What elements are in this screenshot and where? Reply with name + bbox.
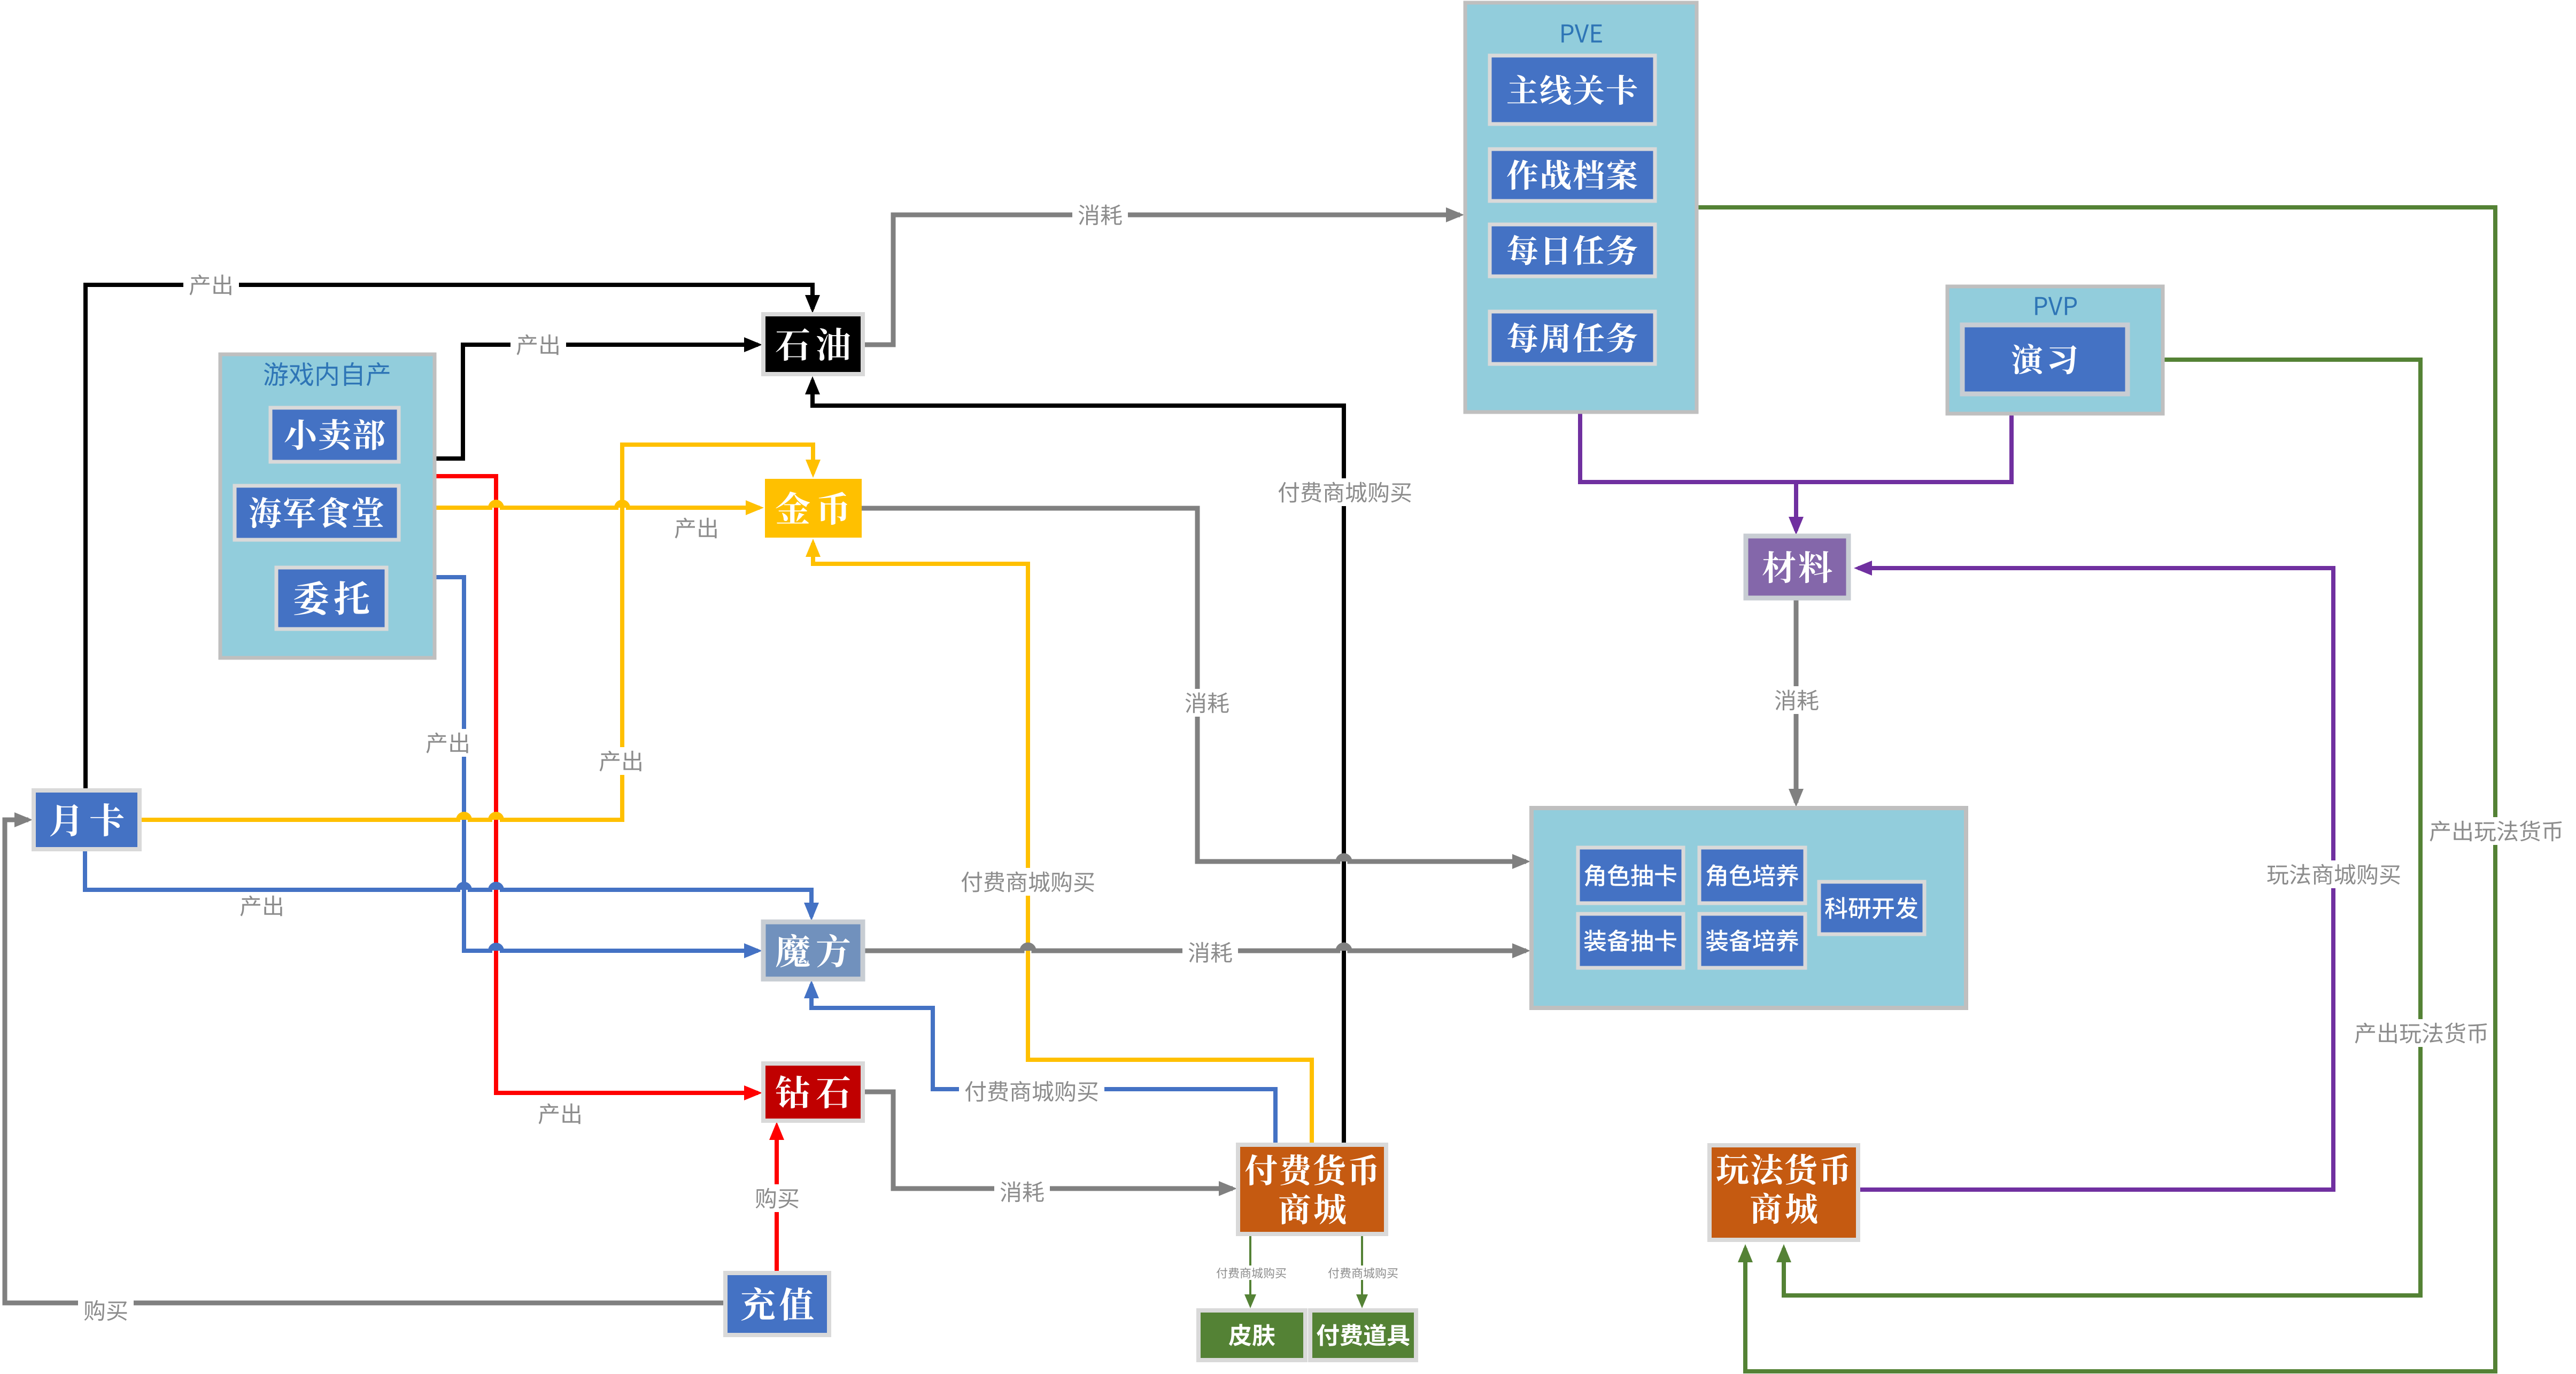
box: 每周任务 (1490, 312, 1655, 364)
text: 每日任务 (1507, 235, 1637, 265)
text: 月卡 (50, 803, 124, 836)
text: 充值 (741, 1287, 814, 1321)
text: 演习 (2012, 344, 2076, 374)
box: 金币 (765, 479, 862, 538)
text: 每周任务 (1507, 322, 1637, 353)
box: 作战档案 (1490, 149, 1655, 201)
wire: 月卡→石油 产出 (black) (86, 285, 820, 802)
title: PVP (2035, 297, 2077, 315)
label: 产出 (委托→魔方) (420, 729, 476, 757)
label: 付费商城购买 (→金币) (955, 868, 1101, 896)
text: 角色培养 (1706, 864, 1798, 887)
text: 材料 (1762, 551, 1832, 583)
label: 产出 (小卖部→石油) (510, 331, 566, 359)
wire: 石油→PVE 消耗 (gray) (863, 207, 1464, 345)
label: 购买 (充值→月卡) (78, 1297, 134, 1324)
text: 主线关卡 (1507, 75, 1637, 105)
wire: PVP演习→材料 (purple) (1796, 414, 2012, 482)
label: 消耗 (魔方→消耗区) (1182, 938, 1238, 966)
box: 皮肤 (1198, 1310, 1305, 1360)
wire: 充值→月卡 购买 (gray) (5, 812, 725, 1303)
container: 游戏内自产 (220, 354, 435, 658)
label: 购买 (充值→钻石) (749, 1184, 805, 1212)
box: 科研开发 (1819, 882, 1924, 934)
label: 产出玩法货币 (PVE→) (2424, 817, 2569, 845)
box: 角色抽卡 (1578, 848, 1683, 903)
wire: 玩法货币商城→材料 玩法商城购买 (purple) (1854, 561, 2333, 1190)
label: 产出玩法货币 (演习→) (2351, 1019, 2492, 1047)
label: 付费商城购买 (→魔方) (959, 1077, 1104, 1105)
label: 产出 (海军食堂→金币) (675, 518, 717, 539)
wire: 海军食堂→金币 产出 (yellow) (435, 500, 764, 515)
label: 玩法商城购买 (→材料) (2261, 860, 2407, 888)
wire: 付费货币商城→魔方 付费商城购买 (blue) (804, 980, 1275, 1145)
title: 游戏内自产 (264, 362, 390, 386)
label: 消耗 (金币→消耗区) (1179, 689, 1235, 717)
text: 皮肤 (1229, 1324, 1275, 1346)
container: PVE (1465, 3, 1697, 412)
text: 海军食堂 (250, 497, 384, 528)
text: 小卖部 (285, 419, 385, 450)
label: 产出 (月卡→金币) (593, 747, 649, 775)
wire: 委托→魔方 产出 (blue) (435, 577, 762, 958)
text: 科研开发 (1825, 897, 1918, 919)
text: 角色抽卡 (1584, 864, 1676, 886)
box: 付费道具 (1310, 1310, 1416, 1360)
text: 装备抽卡 (1584, 929, 1676, 951)
wire: 付费货币商城→石油 付费商城购买 (black) (805, 376, 1344, 1145)
wire: PVE→玩法货币商城 产出玩法货币 (green) (1697, 207, 2495, 1371)
text: 作战档案 (1507, 159, 1637, 190)
wire: 月卡→金币 产出 (yellow) (140, 445, 821, 820)
text: 玩法货币商城 line2 (1751, 1193, 1817, 1224)
label: 付费商城购买 (→付费道具) (1325, 1266, 1401, 1280)
text: 付费货币商城 line2 (1279, 1193, 1345, 1225)
box: 委托 (276, 568, 386, 629)
text: 委托 (294, 581, 369, 615)
wire: 演习→玩法货币商城 产出玩法货币 (green) (1776, 360, 2420, 1295)
box: 主线关卡 (1490, 56, 1655, 124)
container: 消耗区(抽卡培养) (1531, 808, 1966, 1008)
box: 演习 (1962, 325, 2128, 394)
label: 付费商城购买 (→石油) (1272, 478, 1418, 506)
label: 产出 (海军食堂→钻石) (539, 1104, 581, 1124)
wire: 付费货币商城→付费道具 付费商城购买 (green thin) (1356, 1234, 1368, 1308)
wire: 金币→消耗区 消耗 (gray) (862, 508, 1530, 869)
box: 海军食堂 (235, 486, 399, 540)
text: 玩法货币商城 line1 (1716, 1154, 1848, 1185)
label: 消耗 (钻石→付费货币商城) (994, 1178, 1050, 1206)
label: 消耗 (石油→PVE) (1072, 201, 1128, 229)
label: 产出 (月卡→石油) (183, 271, 239, 299)
wire: 海军食堂→钻石 产出 (red) (435, 476, 762, 1100)
box: 每日任务 (1490, 224, 1655, 276)
wire: 付费货币商城→金币 付费商城购买 (yellow) (806, 539, 1312, 1145)
box: 小卖部 (270, 408, 399, 462)
wire: PVE→材料 (purple) (1580, 412, 1804, 535)
box: 魔方 (763, 922, 863, 979)
box: 装备抽卡 (1578, 914, 1683, 968)
text: 钻石 (776, 1075, 850, 1108)
text: 装备培养 (1706, 929, 1798, 952)
text: 魔方 (776, 934, 850, 967)
text: 付费货币商城 line1 (1246, 1154, 1377, 1186)
box: 付费货币商城 (1238, 1145, 1386, 1234)
text: 石油 (776, 328, 850, 361)
wire: 材料→消耗区 消耗 (gray) (1789, 598, 1804, 807)
label: 产出 (月卡→魔方) (241, 896, 282, 917)
text: 金币 (776, 492, 847, 525)
wire: 小卖部→石油 产出 (black) (435, 337, 762, 459)
label: 消耗 (材料→消耗区) (1769, 686, 1824, 714)
box: 钻石 (763, 1064, 863, 1121)
box: 角色培养 (1699, 848, 1805, 903)
wire: 付费货币商城→皮肤 付费商城购买 (green thin) (1244, 1234, 1256, 1308)
box: 玩法货币商城 (1709, 1145, 1858, 1240)
text: 付费道具 (1317, 1324, 1410, 1346)
wire: 魔方→消耗区 消耗 (gray) (863, 943, 1530, 958)
box: 充值 (725, 1273, 829, 1335)
box: 月卡 (34, 790, 140, 849)
box: 装备培养 (1699, 914, 1805, 968)
title: PVE (1561, 25, 1602, 43)
label: 付费商城购买 (→皮肤) (1213, 1266, 1289, 1280)
container: PVP (1947, 286, 2163, 414)
box: 材料 (1746, 536, 1848, 598)
wire: 钻石→付费货币商城 消耗 (gray) (863, 1092, 1237, 1196)
box: 石油 (763, 314, 863, 374)
wire: 月卡→魔方 产出 (blue) (85, 849, 819, 921)
wire: 充值→钻石 购买 (red) (769, 1122, 784, 1273)
